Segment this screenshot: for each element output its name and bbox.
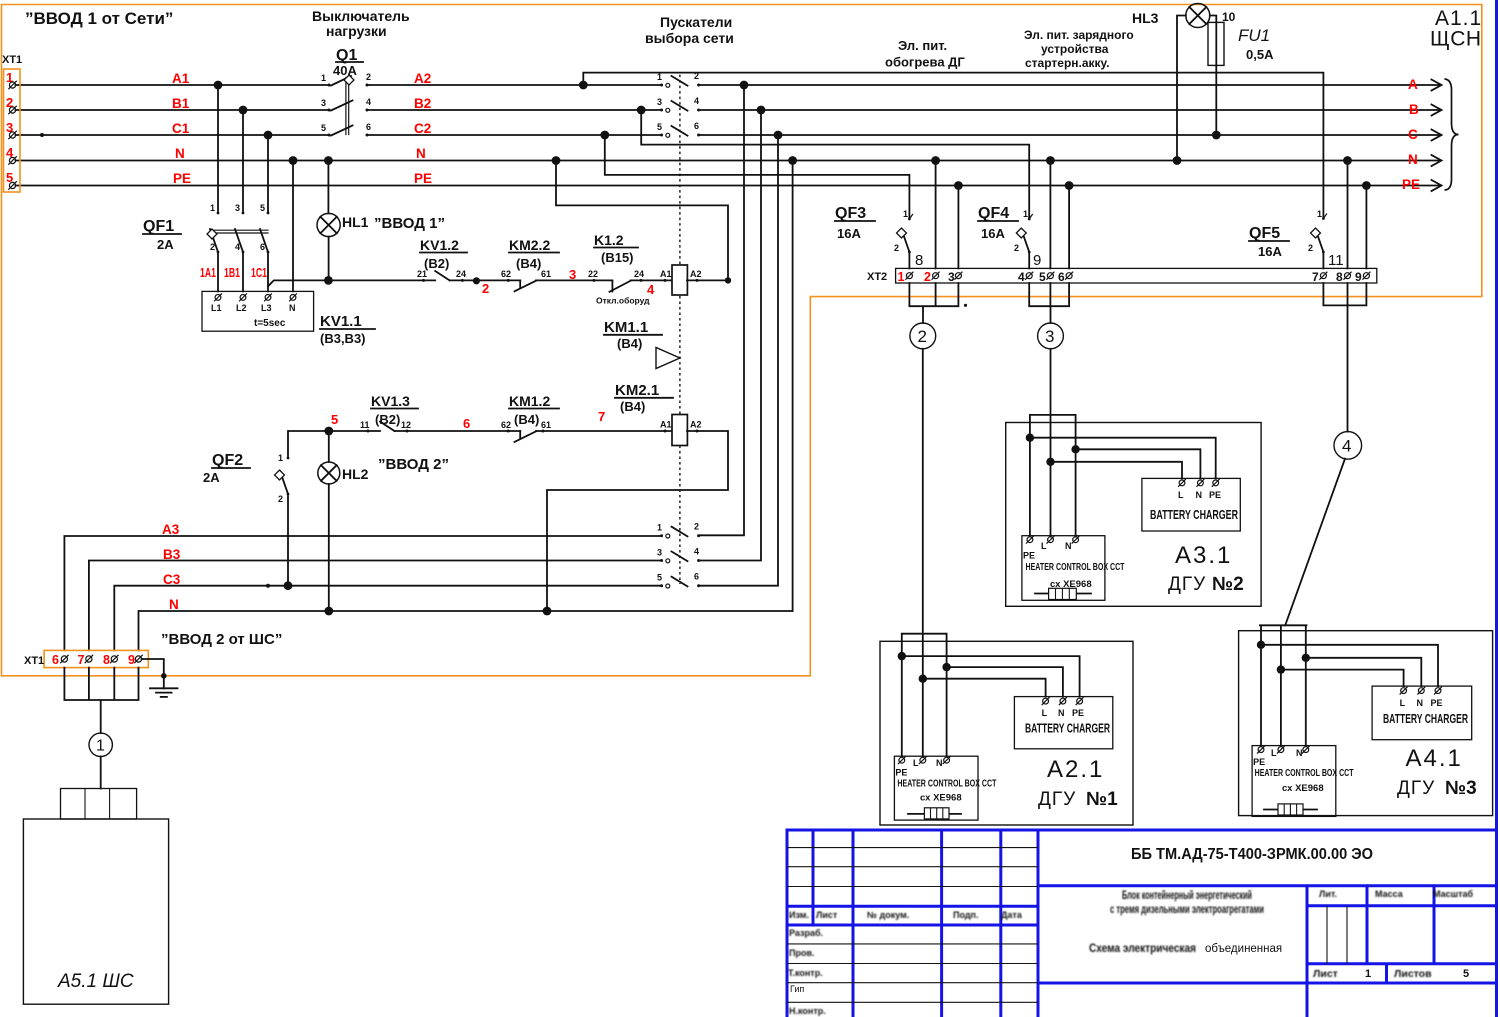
svg-text:A1: A1 — [660, 269, 672, 279]
svg-text:(B4): (B4) — [516, 256, 541, 271]
svg-text:сх XE968: сх XE968 — [920, 793, 962, 804]
sheet frame blue right border — [1495, 0, 1498, 1017]
svg-text:2: 2 — [278, 494, 283, 504]
bus A (A1/A2/A) — [16, 84, 1441, 86]
svg-text:№ докум.: № докум. — [867, 910, 909, 920]
bus PE — [16, 185, 1441, 187]
svg-text:11: 11 — [1328, 252, 1344, 269]
svg-text:4: 4 — [694, 96, 699, 106]
wire to coil — [631, 279, 673, 281]
svg-text:XT2: XT2 — [867, 271, 887, 283]
svg-text:стартерн.акку.: стартерн.акку. — [1025, 56, 1110, 70]
svg-text:устройства: устройства — [1041, 42, 1109, 56]
svg-text:B1: B1 — [172, 96, 190, 111]
svg-text:A2: A2 — [690, 420, 702, 430]
terminal ticks QF3 QF4 QF5 — [908, 217, 1325, 253]
svg-text:№3: №3 — [1445, 778, 1477, 799]
circuit breaker QF5 — [1249, 209, 1344, 269]
blades and tie bar — [210, 229, 218, 252]
svg-text:2: 2 — [694, 522, 699, 532]
svg-text:PE: PE — [1023, 551, 1035, 561]
contact KM2.2 (NC) — [501, 237, 559, 291]
wire N to XT2 terminal 8 — [1347, 161, 1349, 269]
svg-text:6: 6 — [694, 572, 699, 582]
svg-text:Эл. пит.: Эл. пит. — [898, 38, 947, 53]
svg-text:A4.1: A4.1 — [1406, 745, 1463, 772]
ground / PE connection — [142, 659, 164, 688]
svg-text:Лист: Лист — [1313, 968, 1338, 980]
svg-text:1: 1 — [278, 453, 283, 463]
svg-text:ББ ТМ.АД-75-Т400-ЗРМК.00.00 ЭО: ББ ТМ.АД-75-Т400-ЗРМК.00.00 ЭО — [1131, 846, 1373, 863]
red wire numbers 1A1 1B1 1C1 — [200, 266, 267, 280]
svg-text:ДГУ: ДГУ — [1038, 789, 1076, 810]
svg-text:PE: PE — [1402, 177, 1420, 192]
control line 2 — [288, 431, 380, 458]
svg-text:2: 2 — [482, 281, 489, 296]
svg-text:Масштаб: Масштаб — [1433, 889, 1474, 899]
red labels A3 B3 C3 N — [162, 522, 181, 612]
svg-text:Пров.: Пров. — [789, 948, 815, 958]
coil KM2.1 return wire to N ВВОД2 — [547, 431, 728, 611]
svg-text:сх XE968: сх XE968 — [1282, 783, 1324, 794]
wires down to KV1.1 — [217, 252, 219, 291]
svg-text:обогрева ДГ: обогрева ДГ — [885, 55, 965, 70]
svg-text:N: N — [1408, 152, 1418, 167]
svg-text:Масса: Масса — [1375, 889, 1404, 899]
terminal block XT1 bottom — [44, 650, 148, 667]
svg-text:HEATER CONTROL BOX CCT: HEATER CONTROL BOX CCT — [1255, 768, 1354, 779]
svg-text:A: A — [1408, 77, 1418, 92]
svg-text:C3: C3 — [163, 572, 181, 587]
svg-text:(B2): (B2) — [375, 412, 400, 427]
svg-text:XT1: XT1 — [24, 655, 44, 667]
svg-text:L2: L2 — [236, 303, 247, 313]
svg-text:5: 5 — [1463, 968, 1469, 980]
svg-text:4: 4 — [366, 97, 371, 107]
svg-text:Эл. пит. зарядного: Эл. пит. зарядного — [1024, 28, 1134, 42]
line B3 — [89, 561, 662, 651]
svg-text:L: L — [1041, 541, 1047, 551]
svg-text:HL2: HL2 — [342, 466, 369, 482]
N drop to ВВОД2 N line — [792, 161, 794, 612]
svg-text:L: L — [1400, 698, 1406, 708]
svg-text:2: 2 — [924, 270, 931, 284]
svg-text:62: 62 — [501, 269, 511, 279]
wire PE to XT2 terminal 9 — [1365, 186, 1367, 269]
svg-text:Блок контейнерный энергетическ: Блок контейнерный энергетический — [1122, 890, 1252, 902]
svg-text:2: 2 — [1014, 243, 1019, 253]
svg-text:0,5А: 0,5А — [1246, 47, 1274, 62]
svg-text:7: 7 — [78, 653, 85, 667]
svg-text:HEATER CONTROL BOX CCT: HEATER CONTROL BOX CCT — [897, 779, 996, 790]
svg-text:Изм.: Изм. — [789, 910, 809, 920]
line N ВВОД2 — [139, 611, 793, 650]
svg-text:(B3,B3): (B3,B3) — [320, 331, 366, 346]
bus B (B1/B2/B) — [16, 109, 1441, 111]
coil (contactor) KM2.1 — [615, 382, 702, 446]
heater control box A3.1 — [1022, 536, 1105, 601]
wire — [450, 279, 521, 281]
battery charger box A3.1 — [1142, 478, 1240, 531]
svg-text:HL3: HL3 — [1132, 10, 1159, 26]
svg-text:A3: A3 — [162, 522, 180, 537]
svg-text:1: 1 — [903, 209, 908, 219]
svg-text:11: 11 — [360, 420, 370, 430]
svg-text:Схема электрическая: Схема электрическая — [1089, 943, 1196, 955]
wire PE to XT2 terminal 6 — [1068, 186, 1070, 269]
cable group to circle 2 — [909, 283, 958, 323]
svg-text:L1: L1 — [211, 303, 222, 313]
svg-text:3: 3 — [657, 548, 662, 558]
svg-text:(B4): (B4) — [620, 399, 645, 414]
svg-text:L: L — [913, 758, 919, 768]
svg-text:A3.1: A3.1 — [1175, 542, 1232, 569]
svg-text:7: 7 — [1312, 270, 1319, 284]
svg-text:Листов: Листов — [1394, 968, 1432, 980]
svg-text:4: 4 — [235, 242, 240, 252]
node on wire C1 — [40, 133, 44, 137]
svg-text:1: 1 — [210, 203, 215, 213]
svg-text:N: N — [175, 146, 185, 161]
svg-text:Пускатели: Пускатели — [660, 14, 732, 30]
svg-text:Лит.: Лит. — [1319, 889, 1337, 899]
lamp HL2 — [318, 427, 449, 616]
line C3 — [114, 586, 661, 651]
heater control box A4.1 — [1252, 746, 1336, 817]
title block texts — [788, 889, 1474, 1016]
svg-text:N: N — [936, 758, 943, 768]
svg-text:2A: 2A — [203, 470, 220, 485]
svg-text:Подп.: Подп. — [953, 910, 979, 920]
svg-text:4: 4 — [1342, 437, 1351, 456]
circuit breaker QF2 — [203, 452, 292, 590]
svg-text:A1: A1 — [172, 71, 190, 86]
svg-text:KV1.2: KV1.2 — [420, 237, 459, 253]
svg-text:5: 5 — [321, 123, 326, 133]
svg-text:HEATER CONTROL BOX CCT: HEATER CONTROL BOX CCT — [1026, 562, 1125, 573]
svg-text:N: N — [1296, 748, 1303, 758]
wire — [536, 279, 612, 281]
svg-text:KM2.2: KM2.2 — [509, 237, 550, 253]
circuit breaker QF1 — [143, 81, 272, 292]
brace ЩСН output — [1445, 79, 1459, 190]
svg-text:XT1: XT1 — [2, 54, 22, 66]
svg-text:QF4: QF4 — [978, 205, 1009, 222]
svg-text:6: 6 — [1058, 270, 1065, 284]
svg-text:1B1: 1B1 — [224, 266, 240, 280]
svg-text:1C1: 1C1 — [251, 266, 267, 280]
svg-text:4: 4 — [647, 282, 655, 297]
svg-text:1: 1 — [1317, 209, 1322, 219]
svg-text:A2: A2 — [414, 71, 431, 86]
svg-text:3: 3 — [235, 203, 240, 213]
svg-text:C2: C2 — [414, 121, 431, 136]
tap B phase to QF4 — [641, 110, 1029, 219]
svg-text:N: N — [1065, 541, 1072, 551]
svg-text:9: 9 — [128, 653, 135, 667]
svg-text:L: L — [1042, 708, 1048, 718]
svg-text:4: 4 — [694, 547, 699, 557]
cable marker circle 3 — [1038, 323, 1064, 349]
svg-text:4: 4 — [1018, 270, 1025, 284]
svg-text:KM1.1: KM1.1 — [604, 319, 648, 336]
N drop to KV1.1 — [292, 161, 294, 292]
svg-text:PE: PE — [414, 171, 432, 186]
svg-text:6: 6 — [366, 122, 371, 132]
stray dot near XT2 — [964, 304, 967, 307]
svg-text:2: 2 — [366, 72, 371, 82]
red wire labels A1..PE — [172, 71, 191, 186]
bus C (C1/C2/C) — [16, 134, 1441, 136]
svg-text:3: 3 — [1045, 327, 1054, 346]
svg-text:5: 5 — [657, 122, 662, 132]
svg-text:ЩСН: ЩСН — [1430, 28, 1482, 51]
svg-text:PE: PE — [1072, 708, 1084, 718]
svg-text:ДГУ: ДГУ — [1397, 778, 1435, 799]
svg-text:B3: B3 — [163, 547, 181, 562]
svg-text:5: 5 — [260, 203, 265, 213]
svg-text:8: 8 — [915, 252, 923, 269]
svg-text:6: 6 — [260, 242, 265, 252]
svg-text:Н.контр.: Н.контр. — [789, 1006, 826, 1016]
cable group to circle 4 — [1323, 283, 1366, 432]
svg-text:N: N — [169, 597, 179, 612]
svg-text:KM1.2: KM1.2 — [509, 393, 550, 409]
svg-text:A2.1: A2.1 — [1047, 756, 1104, 783]
svg-text:(B15): (B15) — [601, 250, 634, 265]
red wire labels A2..PE — [414, 71, 432, 186]
wires below XT1 to cable 1 — [64, 668, 138, 734]
output arrows A..PE — [1432, 80, 1442, 192]
svg-text:L: L — [1271, 748, 1277, 758]
coil (contactor) KM1.1 — [604, 265, 702, 351]
svg-text:24: 24 — [634, 269, 644, 279]
circuit breaker QF3 — [835, 205, 923, 269]
svg-text:Лист: Лист — [816, 910, 838, 920]
terminal ticks QF2 — [287, 457, 290, 496]
svg-text:N: N — [1058, 708, 1065, 718]
svg-text:6: 6 — [694, 121, 699, 131]
svg-text:3: 3 — [657, 97, 662, 107]
svg-text:24: 24 — [456, 269, 466, 279]
svg-text:8: 8 — [1336, 270, 1343, 284]
svg-text:C: C — [1408, 127, 1418, 142]
svg-text:Дата: Дата — [1001, 910, 1023, 920]
svg-text:A1: A1 — [660, 420, 672, 430]
svg-text:1: 1 — [96, 738, 105, 755]
svg-text:N: N — [416, 146, 426, 161]
svg-text:”ВВОД 1”: ”ВВОД 1” — [374, 215, 445, 232]
svg-text:61: 61 — [541, 269, 551, 279]
line A3 — [64, 536, 661, 650]
svg-text:ДГУ: ДГУ — [1168, 574, 1206, 595]
battery charger box A4.1 — [1372, 686, 1472, 740]
battery charger box A2.1 — [1014, 697, 1112, 749]
svg-text:1A1: 1A1 — [200, 266, 216, 280]
title block thin row lines — [787, 848, 1347, 1003]
svg-text:N: N — [1196, 490, 1203, 500]
svg-text:6: 6 — [52, 653, 59, 667]
svg-text:1: 1 — [898, 270, 905, 284]
svg-text:№2: №2 — [1212, 574, 1244, 595]
svg-text:QF3: QF3 — [835, 205, 866, 222]
cable marker circle 2 — [910, 323, 936, 349]
svg-text:объединенная: объединенная — [1205, 943, 1282, 955]
title block outer and blue grid — [786, 829, 1496, 1017]
svg-text:PE: PE — [1253, 757, 1265, 767]
svg-text:3: 3 — [948, 270, 955, 284]
svg-text:5: 5 — [657, 573, 662, 583]
mechanical link KM2 dashed — [679, 296, 681, 415]
box A5.1 ШС — [23, 789, 168, 1005]
svg-text:Т.контр.: Т.контр. — [788, 968, 823, 978]
svg-text:t=5sec: t=5sec — [254, 318, 286, 329]
tap A phase to QF5 — [583, 73, 1323, 219]
tap C phase to QF3 — [605, 135, 910, 219]
cable marker circle 1 — [89, 733, 112, 756]
svg-text:N: N — [1417, 698, 1424, 708]
svg-text:16A: 16A — [837, 226, 861, 241]
svg-text:B2: B2 — [414, 96, 431, 111]
svg-text:2: 2 — [1308, 243, 1313, 253]
tap A after KM1 down to KM2 contact — [699, 85, 744, 535]
svg-text:(B2): (B2) — [424, 256, 449, 271]
red labels right outputs — [1402, 77, 1420, 192]
svg-text:KV1.3: KV1.3 — [371, 393, 410, 409]
svg-text:40A: 40A — [333, 63, 357, 78]
svg-text:HL1: HL1 — [342, 214, 369, 230]
svg-text:5: 5 — [1039, 270, 1046, 284]
svg-text:(B4): (B4) — [617, 336, 642, 351]
svg-text:с тремя дизельными электроагре: с тремя дизельными электроагрегатами — [1110, 904, 1264, 916]
svg-text:N: N — [289, 303, 296, 313]
svg-text:”ВВОД 1 от Сети”: ”ВВОД 1 от Сети” — [25, 9, 173, 28]
contactor KM2 main contacts — [657, 522, 700, 588]
load switch Q1 — [321, 47, 371, 137]
control line 1 (wire from L3/C phase) — [268, 280, 435, 286]
svg-text:5: 5 — [331, 412, 338, 427]
svg-text:1: 1 — [1365, 968, 1371, 980]
bus N — [16, 160, 1441, 162]
svg-text:выбора сети: выбора сети — [645, 30, 734, 46]
svg-text:62: 62 — [501, 420, 511, 430]
svg-text:2: 2 — [210, 242, 215, 252]
svg-text:6: 6 — [463, 416, 470, 431]
svg-text:16A: 16A — [1258, 244, 1282, 259]
interlock triangle KM1/KM2 — [656, 348, 680, 369]
svg-text:BATTERY CHARGER: BATTERY CHARGER — [1025, 721, 1110, 736]
svg-text:7: 7 — [598, 409, 605, 424]
svg-text:BATTERY CHARGER: BATTERY CHARGER — [1383, 711, 1468, 726]
wire N to XT2 terminal 2 — [935, 161, 937, 269]
tick marks Q1 tops (small up ticks at QF tops) — [909, 214, 1326, 219]
svg-text:C1: C1 — [172, 121, 190, 136]
svg-text:2: 2 — [918, 327, 927, 346]
svg-text:16A: 16A — [981, 226, 1005, 241]
svg-text:1: 1 — [657, 523, 662, 533]
svg-text:Разраб.: Разраб. — [789, 928, 823, 938]
svg-text:FU1: FU1 — [1238, 26, 1270, 45]
svg-text:1: 1 — [1023, 209, 1028, 219]
contact KV1.3 (NO) — [360, 393, 520, 433]
mechanical link KM1 dashed — [679, 75, 681, 265]
svg-text:PE: PE — [1209, 490, 1221, 500]
pole drops from buses — [217, 85, 219, 213]
svg-text:А5.1 ШС: А5.1 ШС — [57, 971, 134, 992]
relay KV1.1 box — [202, 291, 375, 346]
contact K1.2 (NC Откл.оборуд) — [588, 232, 655, 306]
contact KV1.2 (NO) — [417, 237, 467, 282]
svg-text:QF2: QF2 — [212, 452, 243, 469]
svg-text:12: 12 — [401, 420, 411, 430]
wire PE to XT2 terminal 3 — [957, 186, 959, 269]
svg-text:PE: PE — [173, 171, 191, 186]
contact KM1.2 (NC) — [501, 393, 672, 442]
cable group to circle 3 — [1029, 283, 1069, 323]
svg-text:3: 3 — [569, 267, 576, 282]
lamp HL3 — [1132, 4, 1236, 165]
svg-text:Откл.оборуд: Откл.оборуд — [596, 296, 650, 306]
heater control box A2.1 — [894, 756, 978, 820]
svg-text:”ВВОД 2”: ”ВВОД 2” — [378, 456, 449, 473]
svg-text:61: 61 — [541, 420, 551, 430]
terminal ticks QF1 — [217, 212, 270, 254]
svg-text:(B4): (B4) — [514, 412, 539, 427]
svg-text:L3: L3 — [261, 303, 272, 313]
svg-text:2: 2 — [894, 243, 899, 253]
svg-text:KM2.1: KM2.1 — [615, 382, 659, 399]
cabinet A1.1 orange boundary — [2, 5, 1482, 676]
svg-text:9: 9 — [1355, 270, 1362, 284]
lamp HL1 — [317, 156, 445, 280]
svg-text:K1.2: K1.2 — [594, 232, 624, 248]
circuit breaker QF4 — [978, 205, 1041, 269]
svg-text:BATTERY CHARGER: BATTERY CHARGER — [1150, 507, 1238, 522]
svg-text:PE: PE — [895, 768, 907, 778]
svg-text:B: B — [1409, 102, 1419, 117]
svg-text:Выключатель: Выключатель — [312, 8, 410, 24]
tap C after KM1 down to KM2 contact — [699, 135, 778, 586]
tap B after KM1 down to KM2 contact — [699, 110, 761, 561]
terminal block XT2 — [867, 268, 1377, 284]
wire to A5.1 — [100, 757, 102, 789]
wire N to XT2 terminal 5 — [1049, 161, 1051, 269]
terminal block XT1 top — [4, 69, 21, 192]
svg-text:A2: A2 — [690, 269, 702, 279]
svg-text:3: 3 — [321, 98, 326, 108]
svg-text:QF5: QF5 — [1249, 225, 1280, 242]
fuse FU1 — [1208, 22, 1274, 65]
svg-text:KV1.1: KV1.1 — [320, 313, 362, 330]
coil KM1.1 return wire to N — [556, 161, 728, 281]
svg-text:8: 8 — [103, 653, 110, 667]
svg-text:22: 22 — [588, 269, 598, 279]
svg-text:№1: №1 — [1086, 789, 1118, 810]
svg-text:2A: 2A — [157, 237, 174, 252]
svg-text:9: 9 — [1033, 252, 1041, 269]
svg-text:QF1: QF1 — [143, 218, 174, 235]
svg-text:PE: PE — [1431, 698, 1443, 708]
svg-text:1: 1 — [321, 73, 326, 83]
svg-text:”ВВОД 2 от ШС”: ”ВВОД 2 от ШС” — [161, 631, 282, 648]
svg-text:Гип: Гип — [790, 984, 804, 994]
svg-text:нагрузки: нагрузки — [326, 23, 387, 39]
cable marker circle 4 — [1334, 432, 1362, 460]
svg-text:L: L — [1178, 490, 1184, 500]
contactor KM1 main contacts (network selection) — [657, 71, 700, 137]
